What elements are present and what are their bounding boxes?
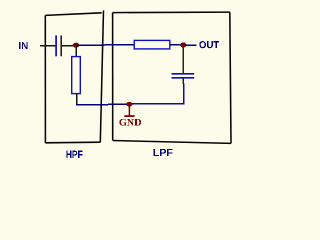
node B junction dot xyxy=(180,43,186,48)
wire node B down to C2 xyxy=(182,46,184,74)
label LPF xyxy=(154,149,173,156)
wire node A to R2 xyxy=(77,44,134,46)
wire node A down to R1 xyxy=(75,46,77,58)
label OUT xyxy=(199,41,219,48)
wire node B to OUT xyxy=(185,44,196,46)
HPF block border xyxy=(45,10,103,142)
ground symbol xyxy=(124,105,134,116)
capacitor C1 xyxy=(56,35,61,56)
wire IN to C1 xyxy=(40,45,56,47)
resistor R1 xyxy=(72,57,81,94)
wire C2 stub down xyxy=(182,78,184,84)
label IN xyxy=(19,42,27,49)
wire bottom rail ground node to R1 xyxy=(76,103,130,106)
wire C1 to node A xyxy=(62,45,76,47)
LPF block border xyxy=(113,12,231,143)
label HPF xyxy=(66,151,82,158)
capacitor C2 xyxy=(172,74,195,78)
ground node junction dot xyxy=(126,102,132,107)
wire C2 down and left to ground node xyxy=(129,84,183,104)
wire R1 to bottom rail xyxy=(76,94,78,105)
label GND xyxy=(119,119,141,126)
wire R2 to node B xyxy=(170,44,184,46)
node A junction dot xyxy=(73,43,80,48)
resistor R2 xyxy=(134,40,170,49)
